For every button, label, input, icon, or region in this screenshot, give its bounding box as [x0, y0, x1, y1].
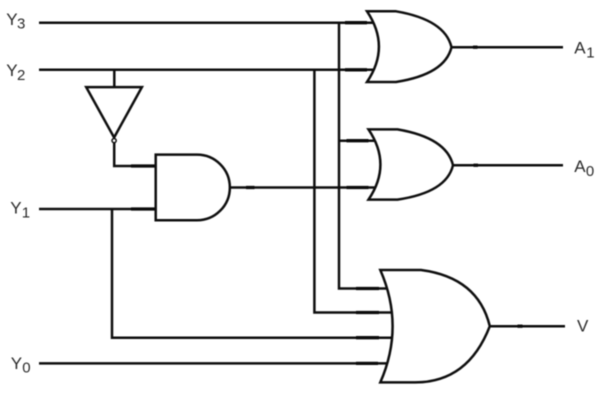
label Y1 — [10, 198, 30, 221]
pin stub overlap A0 input 1 — [347, 139, 369, 142]
svg-text:Y: Y — [11, 354, 22, 373]
pin stub overlap V input 4 — [356, 362, 378, 365]
pin stub overlap V input 2 — [356, 311, 379, 314]
wire Y3 branch to A0 gate — [339, 139, 380, 142]
wire Y3 input line — [39, 21, 376, 24]
svg-text:V: V — [577, 317, 589, 336]
OR gate for A0 — [369, 129, 454, 199]
pin stub overlap AND input 1 — [131, 164, 155, 167]
pin stub overlap V input 1 — [356, 287, 379, 290]
pin stub overlap A1 input 1 — [345, 21, 367, 24]
wire inverter input stub — [113, 70, 116, 88]
pin stub overlap V input 3 — [356, 336, 379, 339]
svg-text:1: 1 — [586, 44, 594, 61]
label Y0 — [11, 354, 31, 376]
OR gate for A1 — [367, 11, 452, 82]
pin stub overlap A1 input 2 — [345, 68, 367, 71]
svg-text:0: 0 — [586, 163, 594, 180]
wire Y2 input line — [39, 69, 377, 72]
pin stub overlap A1 output — [473, 46, 478, 49]
pin stub overlap A0 output — [474, 164, 479, 167]
svg-text:Y: Y — [10, 198, 21, 217]
AND gate U1 — [156, 155, 230, 221]
svg-text:2: 2 — [17, 67, 25, 84]
label A0 — [574, 157, 594, 180]
pin stub overlap V output — [518, 325, 523, 328]
label Y2 — [6, 61, 25, 84]
wire V output — [489, 325, 565, 328]
svg-text:1: 1 — [22, 205, 30, 222]
svg-text:0: 0 — [22, 359, 30, 376]
wire Y1 input line — [39, 208, 158, 211]
svg-text:A: A — [574, 157, 586, 176]
svg-text:Y: Y — [6, 10, 17, 29]
wire A1 output — [452, 46, 564, 49]
wire Y0 input line — [39, 362, 388, 365]
inverter (NOT gate) on Y2 — [86, 87, 142, 137]
wire AND output to A0 gate — [230, 186, 378, 189]
pin stub overlap AND input 2 — [131, 207, 155, 210]
wire A0 output — [453, 164, 563, 167]
label Y3 — [6, 10, 25, 33]
wire Y1 branch vertical to V gate — [112, 209, 392, 338]
label V — [577, 317, 589, 336]
svg-text:Y: Y — [6, 61, 17, 80]
label A1 — [574, 38, 594, 61]
svg-text:3: 3 — [17, 15, 25, 32]
OR gate for V — [380, 270, 490, 382]
wire Y3 branch vertical to V gate — [339, 23, 388, 289]
svg-text:A: A — [574, 38, 586, 57]
wire Y2 branch vertical to V gate — [314, 70, 393, 313]
pin stub overlap A0 input 2 — [347, 186, 369, 189]
wire inverter output to AND gate — [114, 142, 158, 167]
pin stub overlap AND output — [246, 186, 255, 189]
inverter output bubble — [112, 139, 116, 143]
